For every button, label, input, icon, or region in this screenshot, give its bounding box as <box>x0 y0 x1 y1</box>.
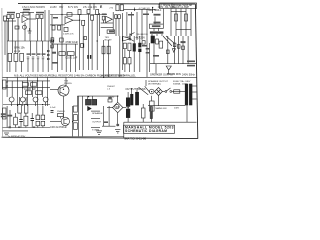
svg-text:N.B. ALL VOLTAGES MEASURED: N.B. ALL VOLTAGES MEASURED <box>14 74 54 78</box>
svg-text:REF 5203-1: REF 5203-1 <box>149 9 163 12</box>
svg-text:500MA - 110V: 500MA - 110V <box>173 83 187 86</box>
svg-text:2x 1k: 2x 1k <box>14 49 21 53</box>
svg-text:470R 10uF: 470R 10uF <box>65 40 78 44</box>
svg-text:8 OHM: 8 OHM <box>92 129 99 131</box>
svg-text:GRN 15k: GRN 15k <box>14 46 25 50</box>
svg-text:OUTPUT: OUTPUT <box>92 121 102 123</box>
svg-text:0.22R 4.7k: 0.22R 4.7k <box>63 34 74 36</box>
svg-text:IHA T.O. 8-11-86: IHA T.O. 8-11-86 <box>125 136 147 140</box>
svg-text:2x 6800uF 50V: 2x 6800uF 50V <box>8 135 26 139</box>
svg-text:2x15V: 2x15V <box>50 6 57 9</box>
svg-text:1N4001: 1N4001 <box>57 111 65 113</box>
svg-text:2N3055: 2N3055 <box>64 83 72 85</box>
svg-text:35V: 35V <box>59 6 64 9</box>
svg-text:SCHEMATIC DIAGRAM: SCHEMATIC DIAGRAM <box>125 129 167 133</box>
svg-text:27k 1.5k 40V: 27k 1.5k 40V <box>83 6 97 9</box>
svg-text:4k7 25V: 4k7 25V <box>136 36 146 40</box>
svg-text:240V 50Hz: 240V 50Hz <box>182 73 196 77</box>
svg-text:B.7V 40V: B.7V 40V <box>68 6 79 9</box>
svg-text:OUTPUT TRANS: OUTPUT TRANS <box>125 87 145 91</box>
svg-text:C30 2x4700uF: C30 2x4700uF <box>50 125 67 129</box>
svg-text:8 OHM MIN: 8 OHM MIN <box>167 72 181 76</box>
svg-text:240V: 240V <box>174 107 180 109</box>
svg-text:LEAD 12 AMP: LEAD 12 AMP <box>173 6 189 9</box>
svg-text:MAINS SW: MAINS SW <box>156 107 168 110</box>
svg-text:(EXTERNAL): (EXTERNAL) <box>148 83 161 86</box>
svg-text:SPEAKER: SPEAKER <box>92 112 103 115</box>
svg-text:2x INDICATES 2 in PARALLEL: 2x INDICATES 2 in PARALLEL <box>100 74 136 78</box>
svg-text:C10 0.1uF: C10 0.1uF <box>65 56 78 60</box>
svg-text:0.1uF: 0.1uF <box>50 107 56 109</box>
svg-text:0.22R 5W: 0.22R 5W <box>24 87 36 91</box>
svg-text:0.5A 6.3VAC 50/60Hz: 0.5A 6.3VAC 50/60Hz <box>22 6 46 9</box>
svg-text:BC239: BC239 <box>105 40 112 42</box>
